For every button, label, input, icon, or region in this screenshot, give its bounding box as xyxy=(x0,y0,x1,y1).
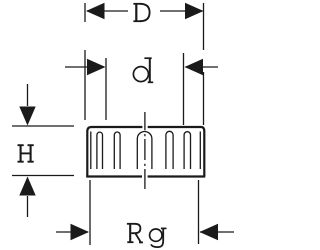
dimension Rg right extension line xyxy=(198,180,200,244)
dimension D right extension line xyxy=(203,3,205,125)
dimension Rg left arrow xyxy=(56,224,89,240)
label d xyxy=(133,58,153,82)
dimension Rg right arrow xyxy=(200,224,235,240)
dimension d left extension line xyxy=(105,58,107,120)
label H xyxy=(18,145,34,162)
rib 4 xyxy=(166,131,173,169)
nut left shoulder line xyxy=(90,132,92,170)
dimension Rg left extension line xyxy=(89,180,91,245)
nut right shoulder line xyxy=(199,132,201,170)
nut top edge left segment xyxy=(91,126,142,128)
dimension H bottom arrow xyxy=(19,177,35,218)
rib 1 xyxy=(97,132,103,169)
nut bottom edge left segment xyxy=(86,175,142,177)
dimension H bottom extension line xyxy=(12,175,74,177)
dimension H top extension line xyxy=(12,125,74,127)
nut bottom edge right segment xyxy=(148,175,206,177)
dimension d left arrow xyxy=(65,59,106,75)
nut left edge with chamfer xyxy=(87,127,91,177)
dimension H top arrow xyxy=(19,84,35,126)
rib 3 (center) xyxy=(137,132,152,169)
label g xyxy=(150,228,167,247)
dimension d right arrow xyxy=(185,59,219,75)
nut top edge right segment xyxy=(148,126,202,128)
dimension D right arrow xyxy=(160,3,204,19)
nut right edge with chamfer xyxy=(202,127,205,177)
dimension d right extension line xyxy=(183,53,185,125)
dimension D left extension line xyxy=(84,3,86,120)
rib 5 xyxy=(184,132,190,169)
center line (dash-dot) xyxy=(144,112,146,189)
label R xyxy=(127,224,143,243)
dimension D left arrow xyxy=(86,3,128,19)
label D xyxy=(133,4,149,21)
rib 2 xyxy=(114,132,120,169)
